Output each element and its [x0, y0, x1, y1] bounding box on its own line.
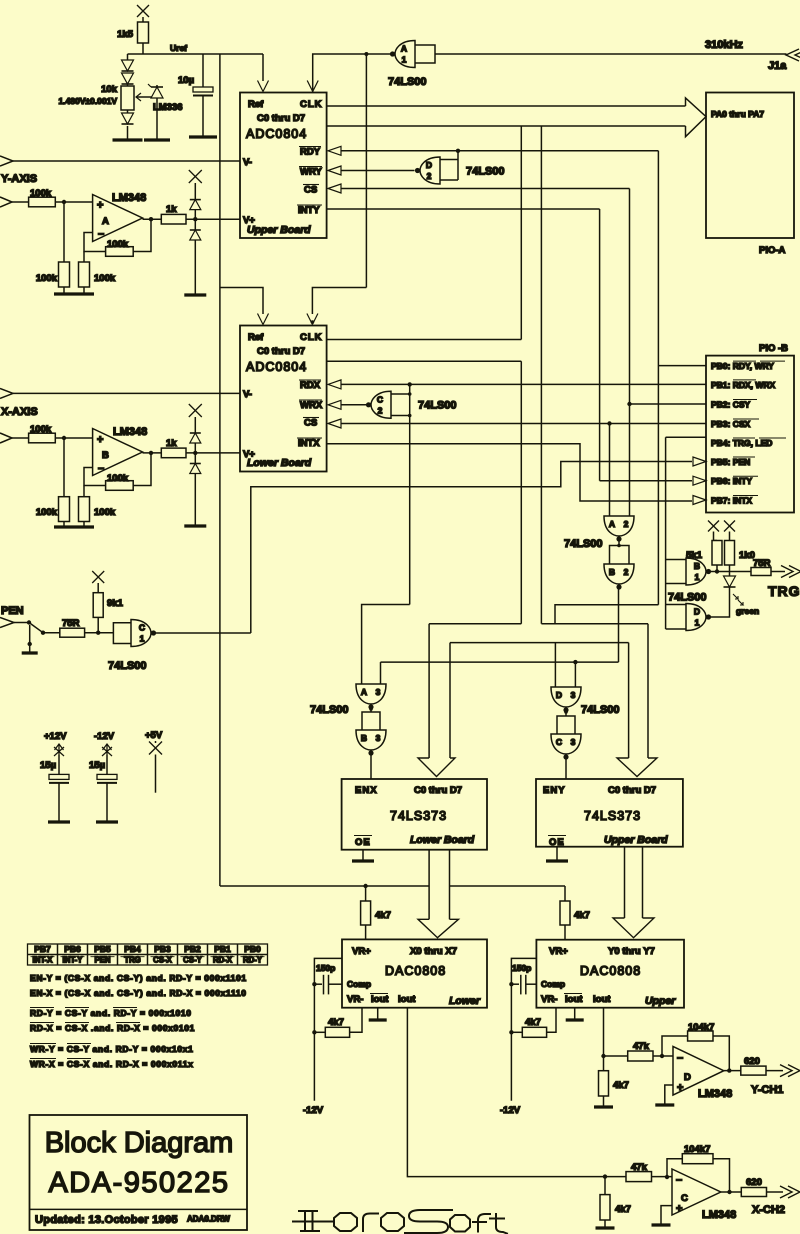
- wire -12V node lower: [314, 958, 342, 1100]
- wire to X-CH2: [767, 1191, 784, 1193]
- junction 5k1: [715, 569, 719, 573]
- svg-text:100k: 100k: [107, 473, 129, 484]
- svg-text:B: B: [694, 561, 700, 571]
- wire to DAC upper VR+: [564, 925, 566, 940]
- wire to Comp: [329, 983, 343, 985]
- svg-text:1.480V±0.001V: 1.480V±0.001V: [58, 96, 117, 106]
- svg-text:CLK: CLK: [300, 332, 323, 343]
- ground: [74, 292, 94, 295]
- NAND gate A2 74LS00: [604, 516, 634, 536]
- connector PEN: [0, 618, 14, 628]
- wire: [83, 486, 85, 497]
- junction clock node: [364, 52, 368, 56]
- svg-text:Upper: Upper: [645, 995, 676, 1007]
- svg-text:9k1: 9k1: [107, 598, 124, 609]
- wire bus drop A2 (to lower latch): [520, 361, 522, 624]
- svg-text:–: –: [98, 228, 104, 240]
- wire RDY to PB0: [658, 365, 706, 367]
- supply +12V arrow: [58, 744, 60, 755]
- wire CLK out / bus top: [327, 105, 686, 107]
- svg-text:ADC0804: ADC0804: [246, 127, 307, 141]
- connector X input 1: [0, 388, 13, 398]
- svg-text:100k: 100k: [94, 507, 116, 518]
- junction feedback X: [665, 1175, 669, 1179]
- wire 310kHz to J1a: [435, 53, 787, 55]
- svg-text:100k: 100k: [107, 239, 129, 250]
- diode clamp X upper: [190, 432, 201, 434]
- wire op-amp D out: [724, 1070, 741, 1072]
- svg-text:PB6: PB6: [64, 944, 81, 954]
- wire: [14, 622, 29, 624]
- svg-text:74LS00: 74LS00: [466, 166, 505, 178]
- wire LED to D1 out: [711, 587, 730, 617]
- resistor 100k Y bias left: [59, 262, 70, 287]
- resistor 100k Y input: [29, 197, 56, 207]
- svg-text:Lower Board: Lower Board: [410, 834, 475, 846]
- svg-text:B: B: [102, 450, 109, 461]
- resistor 75R pen: [60, 628, 85, 637]
- bus block arrowhead into PIO-A: [686, 98, 707, 137]
- connector Y input 1: [0, 156, 13, 166]
- svg-text:–: –: [676, 1174, 682, 1186]
- svg-text:PB3: CSX: PB3: CSX: [711, 419, 751, 429]
- wire lower latch input arrow left shaft: [428, 624, 430, 758]
- wire to ADC lower V+: [186, 452, 240, 454]
- junction: [62, 436, 66, 440]
- svg-text:CLK: CLK: [300, 99, 323, 110]
- supply X 1k0: [724, 521, 735, 532]
- op-amp U1A LM348: [93, 195, 143, 242]
- svg-text:PA0 thru PA7: PA0 thru PA7: [711, 109, 764, 119]
- junction RDY to gate D2: [456, 149, 460, 153]
- svg-text:ENY: ENY: [543, 785, 566, 796]
- svg-text:100k: 100k: [36, 273, 58, 284]
- NAND gate C1 74LS00: [131, 620, 151, 647]
- svg-text:Upper Board: Upper Board: [247, 224, 311, 236]
- svg-text:VR+: VR+: [352, 946, 371, 957]
- wire Uref branch to lower Ref arrow: [220, 288, 263, 315]
- wire RDY step to bus channel: [555, 605, 658, 624]
- clamp diodes X: [189, 404, 202, 417]
- wire bus channel A horizontal: [429, 623, 521, 625]
- ground: [566, 1018, 584, 1021]
- svg-text:75R: 75R: [753, 558, 771, 569]
- svg-text:C0 thru D7: C0 thru D7: [414, 785, 462, 796]
- svg-text:A: A: [102, 216, 109, 227]
- wire: [63, 438, 65, 497]
- svg-text:Block Diagram: Block Diagram: [45, 1127, 234, 1159]
- title box: [30, 1115, 248, 1230]
- wire to op-amp A +: [12, 201, 93, 203]
- svg-text:EN-Y = (CS-X and. CS-Y) and. R: EN-Y = (CS-X and. CS-Y) and. RD-Y = 000x…: [30, 973, 247, 983]
- svg-text:74LS373: 74LS373: [584, 809, 641, 823]
- wire Uref long vertical rail to DAC reference: [219, 54, 221, 886]
- svg-text:Y0 thru Y7: Y0 thru Y7: [608, 946, 655, 957]
- svg-text:PB4: TRG, LED: PB4: TRG, LED: [711, 438, 772, 448]
- ground: [594, 1105, 613, 1108]
- svg-text:1: 1: [695, 572, 700, 582]
- svg-text:Lower Board: Lower Board: [247, 457, 312, 469]
- svg-text:4k7: 4k7: [525, 1017, 541, 1028]
- IC ADC0804 lower board: [240, 326, 327, 472]
- supply X 5k1: [708, 521, 719, 532]
- svg-text:PB7: INTX: PB7: INTX: [711, 496, 752, 506]
- svg-text:X-CH2: X-CH2: [752, 1204, 785, 1216]
- wire gate A3 left input: [362, 605, 410, 685]
- resistor 1k X: [161, 448, 186, 458]
- wire OE to ground: [362, 850, 364, 860]
- wire +5V stub: [155, 755, 157, 793]
- wire CSX to PB3: [341, 423, 706, 425]
- wire gate D3 right input: [574, 662, 576, 687]
- wire upper latch out arrow right shaft: [642, 847, 644, 918]
- svg-text:620: 620: [744, 1056, 760, 1067]
- svg-text:104k7: 104k7: [684, 1144, 710, 1155]
- wire feedback to output X: [713, 1159, 730, 1192]
- svg-text:A: A: [401, 44, 407, 54]
- capacitor 10u: [193, 87, 213, 92]
- svg-text:3: 3: [571, 690, 576, 700]
- pin PB5 triangle: [693, 457, 706, 466]
- svg-text:PB4: PB4: [124, 944, 141, 954]
- svg-text:Ref: Ref: [248, 332, 264, 343]
- gate D2 input tie: [440, 159, 458, 161]
- svg-text:INTX: INTX: [298, 438, 320, 449]
- svg-text:RDY: RDY: [300, 147, 321, 158]
- svg-text:X-AXIS: X-AXIS: [1, 406, 38, 418]
- NAND gate D1 74LS00: [686, 604, 706, 631]
- resistor 100k feedback B: [106, 481, 134, 491]
- svg-text:B: B: [361, 733, 367, 743]
- wire: [565, 710, 567, 717]
- svg-text:PIO-A: PIO-A: [759, 245, 786, 256]
- pin PB7 triangle: [693, 496, 706, 505]
- resistor 104k7 Y: [688, 1031, 713, 1041]
- wire to ground: [127, 126, 129, 140]
- NAND gate A1 74LS00 oscillator: [395, 41, 415, 68]
- svg-text:47k: 47k: [631, 1162, 648, 1173]
- svg-text:100k: 100k: [30, 424, 52, 435]
- wire op-amp C out: [721, 1191, 742, 1193]
- supply +5V X: [149, 742, 162, 755]
- wire ADC lower CLK pin: [327, 339, 522, 341]
- wire INTY vertical: [599, 209, 601, 481]
- capacitor 15u +12V: [49, 774, 69, 779]
- svg-text:-12V: -12V: [94, 731, 115, 742]
- svg-text:V-: V-: [243, 389, 252, 400]
- svg-text:LM348: LM348: [702, 1209, 736, 1221]
- ground: [74, 525, 94, 528]
- svg-text:PB1: RDX, WRX: PB1: RDX, WRX: [711, 380, 776, 390]
- resistor 100k Y bias right: [79, 262, 90, 287]
- diode clamp Y upper: [190, 199, 201, 201]
- svg-text:VR+: VR+: [549, 946, 568, 957]
- svg-text:2: 2: [427, 171, 432, 181]
- svg-text:Iout: Iout: [593, 994, 611, 1005]
- IC DAC0808 upper: [536, 940, 684, 1008]
- wire: [511, 1031, 522, 1033]
- svg-text:CS: CS: [304, 185, 317, 196]
- gate B1 input tie: [666, 559, 686, 561]
- diode clamp Y lower: [190, 229, 201, 231]
- svg-text:RD-X = CS-X .and. RD-X = 000x0: RD-X = CS-X .and. RD-X = 000x0101: [30, 1023, 195, 1033]
- pin CS triangle: [328, 184, 341, 193]
- resistor 4k7 Y: [599, 1071, 609, 1096]
- junction CSX to gate A2: [607, 421, 611, 425]
- svg-text:D: D: [684, 1072, 691, 1083]
- svg-text:INTY: INTY: [298, 205, 320, 216]
- wire gate D3 left input: [554, 643, 556, 687]
- gate D3-C3 tie: [557, 716, 575, 734]
- svg-text:150p: 150p: [512, 963, 531, 973]
- diode D3: [122, 113, 134, 124]
- wire to 47k: [604, 1055, 628, 1057]
- svg-text:LM348: LM348: [112, 192, 146, 204]
- wire Uref into Ref pin with arrow: [262, 54, 264, 81]
- svg-text:4k7: 4k7: [574, 910, 590, 921]
- pin WRX triangle: [328, 400, 341, 409]
- wire CSX vertical to gate A2: [609, 424, 611, 517]
- svg-text:75R: 75R: [62, 618, 80, 629]
- wire Uref rail to VR+ resistors: [220, 885, 429, 887]
- svg-text:DAC0808: DAC0808: [385, 964, 446, 978]
- svg-text:PB6: INTY: PB6: INTY: [711, 476, 752, 486]
- svg-text:–: –: [677, 1052, 683, 1064]
- op-amp U2C LM348: [672, 1169, 721, 1215]
- resistor 100k X bias left: [59, 497, 70, 522]
- wire CSY to PB2: [630, 403, 707, 405]
- wire lower latch out arrow left shaft: [428, 850, 430, 920]
- wire to bias 100k: [83, 252, 85, 263]
- ground: [189, 135, 217, 138]
- wire: [370, 707, 372, 713]
- svg-text:1: 1: [695, 618, 700, 628]
- svg-text:A: A: [609, 519, 615, 529]
- wire to op-amp B +: [12, 437, 93, 439]
- op-amp U2D LM348: [673, 1046, 724, 1095]
- pot wiper arrow: [136, 96, 157, 98]
- svg-text:PB2: PB2: [184, 944, 201, 954]
- wire gate A3 right input: [380, 662, 382, 684]
- ground: [596, 1226, 615, 1229]
- pin WRY triangle: [328, 166, 341, 175]
- wire upper latch input arrow left shaft: [628, 643, 630, 758]
- svg-text:A: A: [361, 687, 367, 697]
- wire TRG,LED to PB4: [666, 436, 706, 438]
- IC PIO-B: [706, 356, 794, 513]
- wire 1k5 to Uref node: [142, 43, 144, 54]
- capacitor 15u -12V: [97, 774, 117, 779]
- NAND gate B3 74LS00: [356, 730, 386, 750]
- svg-text:D: D: [694, 607, 700, 617]
- svg-text:100k: 100k: [30, 188, 52, 199]
- svg-text:C: C: [681, 1193, 688, 1204]
- resistor 1k5: [138, 22, 149, 43]
- resistor 4k7 VR- upper: [522, 1027, 546, 1037]
- LED green: [724, 576, 736, 587]
- wire: [314, 983, 322, 985]
- potentiometer 10k: [121, 86, 134, 110]
- supply -12V arrow: [106, 744, 108, 755]
- bus arrowhead into upper DAC: [613, 918, 654, 938]
- svg-text:ADA0.DRW: ADA0.DRW: [187, 1215, 230, 1224]
- svg-text:74LS00: 74LS00: [581, 704, 620, 716]
- wire to ADC upper V+: [186, 218, 240, 220]
- ground: [652, 1223, 671, 1226]
- wire RDX to PB1: [341, 383, 706, 385]
- svg-text:74LS00: 74LS00: [310, 704, 349, 716]
- wire LM336 to ground: [156, 98, 158, 140]
- gate D1 input tie: [666, 604, 686, 606]
- svg-text:4k7: 4k7: [613, 1080, 629, 1091]
- wire Uref to cap 10u: [202, 54, 204, 87]
- connector Y input 2: [0, 197, 12, 207]
- table PB bit assignments: [28, 944, 268, 965]
- svg-text:EN-X = (CS-X and. CS-Y) and. R: EN-X = (CS-X and. CS-Y) and. RD-X = 000x…: [30, 988, 247, 998]
- NAND gate B2 74LS00: [604, 564, 634, 584]
- wire PB4 feed to gates B1 D1: [665, 437, 667, 629]
- wire INTY: [327, 208, 600, 210]
- connector X-CH2: [780, 1186, 792, 1198]
- svg-text:V-: V-: [243, 157, 252, 168]
- gate A3-B3 tie: [362, 712, 380, 730]
- gate C2 input tie: [391, 393, 410, 395]
- wire to diode chain: [128, 53, 144, 55]
- wire clock into CLK pin with arrow: [313, 54, 396, 92]
- svg-text:104k7: 104k7: [688, 1022, 714, 1033]
- junction VR+ lower: [363, 884, 367, 888]
- pin PB6 triangle: [693, 476, 706, 485]
- svg-text:3: 3: [376, 687, 381, 697]
- svg-text:TRG: TRG: [768, 583, 800, 599]
- svg-text:CS: CS: [304, 418, 317, 429]
- wire + to ground X: [661, 1206, 672, 1224]
- ground: [113, 138, 143, 141]
- wire clock vertical: [365, 54, 367, 288]
- diode clamp X lower: [190, 463, 201, 465]
- junction clamp node Y: [193, 217, 197, 221]
- svg-text:C0 thru D7: C0 thru D7: [257, 113, 305, 124]
- svg-text:Updated: 13.October 1995: Updated: 13.October 1995: [35, 1214, 178, 1226]
- svg-text:5k1: 5k1: [686, 550, 703, 561]
- junction: [62, 200, 66, 204]
- svg-text:74LS00: 74LS00: [108, 660, 147, 672]
- svg-text:LM348: LM348: [113, 426, 147, 438]
- zener LM336: [156, 85, 158, 87]
- junction Iout node Y: [601, 1054, 605, 1058]
- wire INTX to PB7: [327, 444, 692, 501]
- svg-text:PB5: PEN: PB5: PEN: [711, 457, 750, 467]
- wire to ground: [29, 625, 31, 644]
- bus arrowhead into lower DAC: [418, 919, 459, 937]
- resistor 4k7 VR- lower: [325, 1027, 349, 1037]
- wire B3 out to ENX: [370, 753, 372, 780]
- wire: [314, 1031, 325, 1033]
- NAND gate D3 74LS00: [551, 687, 581, 707]
- svg-text:4k7: 4k7: [328, 1017, 344, 1028]
- svg-text:PB3: PB3: [154, 944, 171, 954]
- resistor 47k X: [626, 1172, 652, 1182]
- svg-text:VR-: VR-: [347, 994, 363, 1005]
- ground: [546, 859, 568, 862]
- svg-text:PB0: PB0: [244, 944, 261, 954]
- pin RDY triangle: [328, 146, 341, 155]
- svg-text:1k5: 1k5: [117, 29, 134, 40]
- wire Y-axis V- line: [13, 160, 240, 162]
- svg-text:OE: OE: [355, 837, 371, 848]
- ground: [144, 138, 170, 141]
- IC 74LS373 upper board: [536, 779, 683, 847]
- svg-text:D: D: [556, 690, 562, 700]
- wire to gate C1: [85, 632, 114, 634]
- svg-text:ENX: ENX: [355, 785, 378, 796]
- resistor 4k7 X: [600, 1195, 610, 1220]
- svg-text:Iout: Iout: [371, 994, 389, 1005]
- wire feedback X: [667, 1159, 682, 1177]
- junction 9k1: [96, 631, 100, 635]
- wire bus channel to upper latch: [450, 642, 629, 644]
- svg-text:Lower: Lower: [449, 995, 481, 1007]
- wire lower latch input arrow right shaft: [449, 643, 451, 758]
- wire CSY vertical to gate A2: [629, 189, 631, 517]
- svg-text:WR-Y = CS-Y and. RD-Y = 000x10: WR-Y = CS-Y and. RD-Y = 000x10x1: [30, 1044, 193, 1054]
- svg-text:C0 thru D7: C0 thru D7: [608, 785, 656, 796]
- ground: [54, 525, 74, 528]
- svg-text:WR-X = CS-X and. RD-X = 000x01: WR-X = CS-X and. RD-X = 000x011x: [30, 1059, 193, 1069]
- connector Y-CH1: [780, 1065, 792, 1077]
- wire Uref rail right segment: [450, 885, 566, 887]
- wire Uref rail horizontal: [143, 53, 263, 55]
- svg-text:DAC0808: DAC0808: [580, 964, 641, 978]
- resistor 100k feedback A: [106, 247, 134, 257]
- wire: [127, 110, 129, 113]
- logo Horosoft: [293, 1210, 507, 1234]
- svg-text:OE: OE: [549, 837, 565, 848]
- wire to 100k: [63, 202, 65, 262]
- svg-text:+: +: [677, 1082, 683, 1094]
- IC PIO-A: [706, 93, 794, 239]
- supply X 9k1: [92, 571, 104, 583]
- wire C1 out to PEN net: [156, 632, 251, 634]
- svg-text:+5V: +5V: [145, 730, 163, 741]
- resistor 5k1: [712, 541, 722, 566]
- wire to 4k7: [603, 1056, 605, 1071]
- junction clamp node X: [193, 451, 197, 455]
- wire lower DAC Iout to X-CH2: [407, 1008, 626, 1177]
- svg-text:+: +: [97, 200, 103, 212]
- wire to LED: [729, 565, 731, 576]
- wire clock branch to lower CLK arrow: [312, 288, 366, 315]
- svg-text:PEN: PEN: [1, 605, 24, 617]
- resistor 620 X: [741, 1188, 766, 1197]
- wire op-amp A out: [143, 218, 162, 220]
- junction pen switch pole: [27, 620, 31, 624]
- svg-text:10µ: 10µ: [178, 75, 194, 86]
- svg-text:Comp: Comp: [347, 979, 371, 989]
- svg-text:4k7: 4k7: [615, 1204, 631, 1215]
- svg-text:WRY: WRY: [300, 167, 322, 178]
- svg-text:74LS00: 74LS00: [668, 592, 707, 604]
- IC DAC0808 lower: [342, 939, 487, 1007]
- svg-text:100k: 100k: [36, 507, 58, 518]
- junction D3 right input: [573, 660, 577, 664]
- junction op-amp A output: [149, 217, 153, 221]
- connector X input 2: [0, 433, 12, 443]
- svg-text:2: 2: [624, 567, 629, 577]
- svg-text:+: +: [97, 434, 103, 446]
- wire: [127, 84, 129, 86]
- svg-text:RD-Y = CS-Y and. RD-Y = 000x10: RD-Y = CS-Y and. RD-Y = 000x1010: [30, 1008, 192, 1018]
